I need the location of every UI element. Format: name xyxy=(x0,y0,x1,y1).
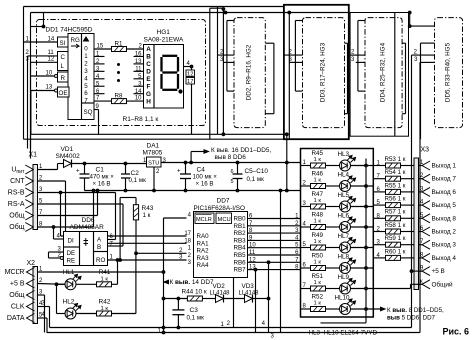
wire junction xyxy=(43,13,45,27)
wire DD1 output row2 stub pin 2 xyxy=(94,63,105,65)
svg-text:MCU: MCU xyxy=(218,217,231,223)
dash-dot repeated cell DD4 xyxy=(365,18,402,128)
wire chain net y12 xyxy=(31,12,351,14)
svg-text:G: G xyxy=(146,91,151,98)
svg-text:R48: R48 xyxy=(312,212,324,219)
svg-text:0,1 мк: 0,1 мк xyxy=(129,177,147,184)
svg-text:CNT: CNT xyxy=(10,178,25,185)
svg-text:C: C xyxy=(146,61,151,68)
wire DD7 MCLR pin 4 xyxy=(164,217,187,219)
svg-text:1 к: 1 к xyxy=(314,260,322,266)
wire LED matrix inner bus xyxy=(365,159,367,323)
svg-text:R59 1 к: R59 1 к xyxy=(385,235,406,242)
svg-text:К выв. 16 DD1–DD5,: К выв. 16 DD1–DD5, xyxy=(211,147,271,154)
wire net1 top loop around DD1 block xyxy=(24,6,284,8)
svg-text:14: 14 xyxy=(135,89,142,95)
wire bottom chain line of display section xyxy=(31,133,287,135)
svg-text:DI: DI xyxy=(68,238,74,245)
svg-text:13: 13 xyxy=(46,85,53,91)
svg-text:DD5, R33–R40, HG5: DD5, R33–R40, HG5 xyxy=(445,42,452,102)
IC DD1 pin SI cell xyxy=(58,37,69,47)
svg-text:Выход 5: Выход 5 xyxy=(432,202,457,209)
svg-text:1 к: 1 к xyxy=(314,239,322,245)
svg-text:R44 10 к: R44 10 к xyxy=(182,289,207,296)
svg-text:Выход 7: Выход 7 xyxy=(432,176,457,183)
svg-text:VD3: VD3 xyxy=(242,283,255,290)
connector X2 pin 4 xyxy=(27,302,35,311)
display HG1 seven-segment glyph xyxy=(162,56,179,90)
svg-text:RB3: RB3 xyxy=(234,237,247,244)
wire RB5 net 6 xyxy=(254,254,301,256)
capacitor C2 0,1mk xyxy=(121,174,130,178)
connector X1 pin 7 xyxy=(25,211,33,220)
wire R1 to HG1 pin 2 xyxy=(127,48,144,50)
svg-text:R50: R50 xyxy=(312,253,324,260)
svg-text:X1: X1 xyxy=(29,152,38,159)
wire DD1 input SI with pins 1,14 xyxy=(24,41,58,43)
svg-text:CLK: CLK xyxy=(11,304,25,311)
wire HG1 side stub row2 xyxy=(134,63,144,65)
svg-text:D: D xyxy=(146,69,151,76)
svg-text:R52: R52 xyxy=(312,294,324,301)
svg-text:ADM485AR: ADM485AR xyxy=(70,224,105,231)
svg-text:R42: R42 xyxy=(99,299,111,306)
svg-text:4: 4 xyxy=(84,75,88,82)
svg-text:C: C xyxy=(61,54,66,61)
wire CNT to DD7 RA1 xyxy=(38,180,66,182)
display HG1 body xyxy=(144,45,184,109)
svg-text:L: L xyxy=(61,63,65,70)
wire RS-B line to DD6 A xyxy=(38,192,116,194)
svg-text:RA4: RA4 xyxy=(197,262,210,269)
wire DD5 aux rail xyxy=(394,13,396,137)
wire DD1 output row6 stub pin 6 xyxy=(94,93,105,95)
wire DD1 output row0 pin 15 xyxy=(94,48,112,50)
svg-text:DD4, R25–R32, HG4: DD4, R25–R32, HG4 xyxy=(380,42,387,102)
svg-text:+5 В: +5 В xyxy=(10,281,25,288)
svg-text:SQ: SQ xyxy=(84,109,93,116)
svg-text:выв 5 DD6, DD7: выв 5 DD6, DD7 xyxy=(387,315,436,322)
svg-text:R58 1 к: R58 1 к xyxy=(385,222,406,229)
svg-text:STU: STU xyxy=(148,161,159,167)
svg-text:R56 1 к: R56 1 к xyxy=(385,196,406,203)
svg-text:1 к: 1 к xyxy=(314,219,322,225)
svg-text:1 к: 1 к xyxy=(314,198,322,204)
svg-text:15: 15 xyxy=(97,44,104,50)
svg-text:R45: R45 xyxy=(312,150,324,157)
svg-text:R55 1 к: R55 1 к xyxy=(385,182,406,189)
svg-text:HL2: HL2 xyxy=(63,299,75,306)
wire HL8 output xyxy=(351,267,374,269)
wire loop DD2 left rail xyxy=(209,8,211,139)
svg-text:3: 3 xyxy=(84,68,88,75)
svg-text:12: 12 xyxy=(187,72,193,78)
svg-text:0,1 мк: 0,1 мк xyxy=(247,176,265,183)
svg-text:6: 6 xyxy=(84,90,88,97)
wire RS-A line to DD6 B xyxy=(38,203,124,205)
dash-dot repeated cell DD2 xyxy=(234,18,265,128)
IC DD1 pins C L cell xyxy=(58,52,69,71)
connector X2 pin 3 xyxy=(27,291,35,300)
svg-text:HL3: HL3 xyxy=(338,151,350,158)
wire DD6 DI pin 4 xyxy=(54,238,64,240)
svg-text:+: + xyxy=(177,169,181,175)
wire DD1 output row7 pin 7 xyxy=(94,100,112,102)
svg-text:1 к: 1 к xyxy=(314,301,322,307)
svg-text:RA0: RA0 xyxy=(197,233,210,240)
svg-text:X3: X3 xyxy=(421,147,430,154)
connector X1 pin 5 xyxy=(25,200,33,209)
svg-text:F: F xyxy=(147,83,151,90)
svg-text:DD3, R17–R24, HG3: DD3, R17–R24, HG3 xyxy=(320,42,327,102)
svg-text:LL4148: LL4148 xyxy=(210,291,231,297)
wire DD4 inner left vertical xyxy=(357,21,359,92)
svg-text:R46: R46 xyxy=(312,171,324,178)
IC DD7 MCLR cell xyxy=(195,213,214,224)
wire X2 Obsh to rail B xyxy=(38,294,45,296)
svg-text:Выход 4: Выход 4 xyxy=(432,255,457,262)
svg-text:17: 17 xyxy=(184,231,191,237)
wire HG1 side stub row1 xyxy=(134,55,144,57)
dash-dot box DD1 cell xyxy=(37,20,206,126)
svg-text:C4: C4 xyxy=(197,167,206,174)
svg-text:RB5: RB5 xyxy=(234,252,247,259)
svg-text:DD2, R9–R16, HG2: DD2, R9–R16, HG2 xyxy=(246,44,253,100)
wire to pin 14 DD7 reference arrow xyxy=(164,280,169,284)
connector X2 pin 5 xyxy=(27,314,35,323)
wire HL10 output to reference xyxy=(351,308,383,310)
wire R42 up to RA3 net xyxy=(112,313,136,315)
wire HG1 side stub row5 xyxy=(134,85,144,87)
svg-text:DD1 74HC595D: DD1 74HC595D xyxy=(46,27,93,34)
wire heavy loop around DD3 xyxy=(284,5,349,139)
svg-text:16: 16 xyxy=(135,52,142,58)
svg-text:HL3–HL10 EL264-7VYD: HL3–HL10 EL264-7VYD xyxy=(309,330,378,337)
svg-text:Выход 3: Выход 3 xyxy=(432,242,457,249)
connector X2 pin 1 xyxy=(27,268,35,277)
svg-text:RB0: RB0 xyxy=(234,216,247,223)
ellipsis dots between R1 and R8 xyxy=(118,64,120,66)
svg-text:R60 1 к: R60 1 к xyxy=(385,248,406,255)
svg-text:12: 12 xyxy=(48,57,55,63)
wire DD3 inner left vertical xyxy=(294,21,296,92)
svg-text:OE: OE xyxy=(59,90,68,97)
wire HL9 output xyxy=(351,288,374,290)
wire LED supply bus xyxy=(56,284,58,313)
resistor R43 1k xyxy=(133,205,138,220)
svg-text:1 к: 1 к xyxy=(314,280,322,286)
svg-text:RB6: RB6 xyxy=(234,259,247,266)
IC DD1 output digits xyxy=(84,37,89,41)
svg-text:DA1: DA1 xyxy=(147,143,160,150)
svg-text:Рис. 6: Рис. 6 xyxy=(443,327,470,337)
wire HL5 output xyxy=(351,206,374,208)
wire DD1 input R pin 10 with inverter circle xyxy=(31,75,55,77)
svg-text:C5–C10: C5–C10 xyxy=(245,168,269,175)
wire R43 bottom to RA3 net xyxy=(135,220,137,253)
connector X1 pin 2 xyxy=(25,177,33,186)
IC DD6 body xyxy=(64,232,108,266)
svg-text:HL9: HL9 xyxy=(338,274,350,281)
wire RB7 net 8 xyxy=(254,269,301,271)
svg-text:Выход 1: Выход 1 xyxy=(432,163,457,170)
wire HG1 common pins 4,12,17 xyxy=(184,66,192,68)
svg-text:Общ: Общ xyxy=(9,291,24,299)
svg-text:MCLR: MCLR xyxy=(5,269,25,276)
svg-text:HL6: HL6 xyxy=(338,213,350,220)
svg-text:18: 18 xyxy=(184,238,191,244)
wire DD2 right return xyxy=(273,43,275,114)
connector X1 pin 8 xyxy=(25,223,33,232)
wire RB7 drop to rail xyxy=(254,268,257,271)
svg-text:К выв. 8 DD1–DD5,: К выв. 8 DD1–DD5, xyxy=(387,307,444,314)
wire HL3 output xyxy=(351,165,374,167)
svg-text:HL1: HL1 xyxy=(63,269,75,276)
svg-text:RB4: RB4 xyxy=(234,245,247,252)
svg-text:13: 13 xyxy=(135,59,142,65)
svg-text:6: 6 xyxy=(230,169,233,175)
svg-text:+: + xyxy=(76,169,80,175)
wire RS-B branch to DD7 RA0 xyxy=(60,193,62,237)
wire RB2 net 3 xyxy=(254,232,301,234)
wire X1 Upit to VD1 xyxy=(38,169,58,171)
svg-text:H: H xyxy=(146,98,151,105)
svg-text:MCLR: MCLR xyxy=(196,217,212,223)
wire DD3 left feed rail xyxy=(288,13,290,140)
wire DD3 clock pins 2,3 xyxy=(284,54,303,56)
svg-text:выв 8 DD6: выв 8 DD6 xyxy=(215,154,247,161)
svg-text:DD6: DD6 xyxy=(82,217,95,224)
svg-text:X2: X2 xyxy=(27,260,36,267)
svg-text:Общ: Общ xyxy=(9,223,24,231)
svg-text:RO: RO xyxy=(96,257,105,264)
svg-text:Общ: Общ xyxy=(9,212,24,220)
capacitor C3 0,1mk xyxy=(172,310,184,315)
wire RB6 net 7 xyxy=(254,261,301,263)
wire DD6 DE pin 3 xyxy=(49,251,64,253)
connector X3 body xyxy=(414,158,419,290)
svg-text:DATA: DATA xyxy=(7,315,25,322)
wire DD1 SQ output pin 9 xyxy=(94,109,99,111)
svg-text:M7805: M7805 xyxy=(143,150,163,157)
svg-text:7: 7 xyxy=(84,98,88,105)
svg-text:HL4: HL4 xyxy=(338,172,350,179)
svg-text:10: 10 xyxy=(46,70,53,76)
wire +5V riser to X3 xyxy=(412,270,423,272)
svg-text:B: B xyxy=(146,54,151,61)
wire R43 top link xyxy=(135,198,137,205)
svg-text:5: 5 xyxy=(230,179,233,185)
svg-text:DD7: DD7 xyxy=(217,198,230,205)
wire DD5 rails down right side xyxy=(411,55,413,327)
wire common cathode bus to X3 Obshchiy xyxy=(373,288,410,290)
wire DD2 inner left vertical xyxy=(226,21,228,92)
wire RB3 net 4 xyxy=(254,239,301,241)
wire DD4 clock pins 2,3 xyxy=(350,54,365,56)
svg-text:HL7: HL7 xyxy=(338,233,350,240)
svg-text:Общий: Общий xyxy=(432,280,453,288)
svg-text:RB1: RB1 xyxy=(234,223,247,230)
wire ground rail xyxy=(85,190,301,192)
wire RB6 drop through VD3 node xyxy=(267,261,270,264)
wire X2 DATA to rail B xyxy=(38,317,48,319)
svg-text:1 к: 1 к xyxy=(143,212,151,219)
svg-text:Выход 6: Выход 6 xyxy=(432,189,457,196)
svg-text:R51: R51 xyxy=(312,273,324,280)
wire HL7 output xyxy=(351,247,374,249)
wire DD1 input OE pin 13 with inverter circle xyxy=(31,90,55,92)
svg-text:2: 2 xyxy=(84,60,88,67)
svg-text:× 16 В: × 16 В xyxy=(196,181,214,188)
connector X1 body xyxy=(33,165,38,230)
wire vertical from DD2 loop to +5 rail xyxy=(286,134,288,190)
wire RB0 net 1 xyxy=(254,218,301,220)
dash-dot repeated cell DD5 xyxy=(435,18,463,128)
svg-text:1 к: 1 к xyxy=(314,178,322,184)
wire DD6 RE pin 2 inverted xyxy=(60,257,63,260)
wire RB4 net 5 xyxy=(254,247,301,249)
wire X2 +5V to LED bus xyxy=(38,283,66,286)
wire DD4 right return xyxy=(405,43,407,114)
svg-text:RA1: RA1 xyxy=(197,240,210,247)
svg-text:10: 10 xyxy=(135,96,142,102)
svg-text:17: 17 xyxy=(187,79,193,85)
svg-text:C1: C1 xyxy=(96,167,105,174)
svg-text:RA3: RA3 xyxy=(197,255,210,262)
svg-text:RS-A: RS-A xyxy=(8,201,25,208)
wire RA3 net to DD7 xyxy=(136,252,187,254)
wire DD6 RO pin 1 to DD7 RA4 xyxy=(108,259,187,261)
wire +5V rail right of DA1 xyxy=(161,162,301,164)
svg-text:11: 11 xyxy=(135,67,142,73)
svg-text:B: B xyxy=(97,244,101,251)
wire R41 to RO net xyxy=(112,283,118,285)
svg-text:Выход 2: Выход 2 xyxy=(432,229,457,236)
wire HG1 side stub row4 xyxy=(134,78,144,80)
svg-text:R: R xyxy=(61,75,66,82)
svg-text:RB2: RB2 xyxy=(234,230,247,237)
svg-text:C3: C3 xyxy=(190,307,199,314)
capacitor C1 470mk xyxy=(80,174,90,178)
wire DD1 input C with pins 2,11 xyxy=(28,55,58,57)
svg-text:C2: C2 xyxy=(131,170,140,177)
IC DD1 pin R cell xyxy=(58,72,69,82)
wire X1 Obsh pin7 to ground xyxy=(38,215,98,217)
connector X2 body xyxy=(33,267,38,324)
svg-text:VD1: VD1 xyxy=(61,146,74,153)
svg-text:14: 14 xyxy=(48,36,55,42)
svg-text:1: 1 xyxy=(84,53,88,60)
connector X1 pin 3 xyxy=(25,188,33,197)
wire DD1 output row5 stub pin 5 xyxy=(94,85,105,87)
IC DD7 body xyxy=(194,212,248,278)
svg-text:R57 1 к: R57 1 к xyxy=(385,209,406,216)
svg-text:HL10: HL10 xyxy=(335,295,351,302)
wire X1 Obsh pin8 xyxy=(38,226,94,228)
wire DD1 output row3 stub pin 3 xyxy=(94,70,105,72)
dash-dot repeated cell DD3 xyxy=(303,18,345,128)
connector X2 pin 2 xyxy=(27,279,35,288)
svg-text:0: 0 xyxy=(84,46,88,53)
wire DD5 feed xyxy=(409,13,411,27)
svg-text:R43: R43 xyxy=(142,205,154,212)
wire HL4 output xyxy=(351,185,374,187)
wire LED matrix box xyxy=(301,149,374,318)
wire to pin 16 DD1-DD5 reference arrow xyxy=(190,152,192,163)
svg-text:A: A xyxy=(146,46,151,53)
svg-text:R53 1 к: R53 1 к xyxy=(385,156,406,163)
op IC DD1 body xyxy=(68,34,94,120)
wire HL6 output xyxy=(351,226,374,228)
wire loop DD2 inner rail xyxy=(222,9,224,134)
svg-text:470 мк ×: 470 мк × xyxy=(90,174,115,181)
svg-text:SI: SI xyxy=(60,40,66,47)
wire +5 rail dots xyxy=(83,162,86,165)
wire bottom rail A xyxy=(50,327,412,329)
svg-text:R1–R8 1,1 к: R1–R8 1,1 к xyxy=(123,116,159,123)
wire DA1 ground pin 2 xyxy=(153,167,155,191)
svg-text:HL8: HL8 xyxy=(338,254,350,261)
svg-text:5: 5 xyxy=(84,83,88,90)
svg-text:DE: DE xyxy=(67,250,76,257)
capacitor C5-C10 0,1mk xyxy=(233,174,243,179)
svg-text:100 мк ×: 100 мк × xyxy=(193,174,218,181)
svg-text:× 16 В: × 16 В xyxy=(93,181,111,188)
svg-text:+5 В: +5 В xyxy=(432,268,445,275)
wire loop around DD4 xyxy=(350,13,408,137)
wire HG1 side stub row6 xyxy=(134,93,144,95)
connector X1 pin 1 xyxy=(25,165,33,174)
wire ground drop column xyxy=(280,191,282,333)
capacitor C4 100mk xyxy=(180,174,191,179)
IC DD7 MCU cell xyxy=(216,213,232,224)
svg-text:1 к: 1 к xyxy=(314,157,322,163)
wire RB1 net 2 xyxy=(254,225,301,227)
svg-text:К выв. 14 DD7: К выв. 14 DD7 xyxy=(170,279,214,286)
wire HG1 side stub row3 xyxy=(134,70,144,72)
svg-text:R47: R47 xyxy=(312,191,324,198)
svg-text:0,1 мк: 0,1 мк xyxy=(187,315,205,322)
svg-text:RS-B: RS-B xyxy=(8,190,25,197)
IC DD1 pin OE cell xyxy=(58,87,70,97)
svg-text:RE: RE xyxy=(67,258,76,265)
svg-text:R41: R41 xyxy=(99,269,111,276)
svg-text:SA08-21EWA: SA08-21EWA xyxy=(144,37,185,44)
svg-text:SM4002: SM4002 xyxy=(56,153,81,160)
svg-text:11: 11 xyxy=(48,50,55,56)
svg-text:VD2: VD2 xyxy=(213,283,226,290)
wire VD3 cathode down xyxy=(253,298,269,300)
svg-text:PIC16F628A-I/SO: PIC16F628A-I/SO xyxy=(194,205,246,212)
svg-text:E: E xyxy=(146,76,151,83)
svg-text:RG: RG xyxy=(71,37,80,44)
svg-text:Выход 8: Выход 8 xyxy=(432,215,457,222)
svg-text:HL5: HL5 xyxy=(338,192,350,199)
wire X2 CLK to rail A xyxy=(38,306,50,308)
wire DD7 ground pin down xyxy=(233,278,235,328)
svg-text:RA2: RA2 xyxy=(197,248,210,255)
svg-text:R54 1 к: R54 1 к xyxy=(385,169,406,176)
wire DD3 right return xyxy=(347,43,349,114)
svg-text:R49: R49 xyxy=(312,232,324,239)
wire DD1 output row1 stub pin 1 xyxy=(94,55,105,57)
wire DD1 input L with pins 3,12 xyxy=(31,61,58,63)
svg-text:LL4148: LL4148 xyxy=(239,291,260,297)
wire R8 to HG1 pin 10 xyxy=(127,100,144,102)
svg-text:HG1: HG1 xyxy=(157,29,171,36)
wire DD1 output row4 stub pin 4 xyxy=(94,78,105,80)
wire bottom rail B xyxy=(47,332,421,334)
